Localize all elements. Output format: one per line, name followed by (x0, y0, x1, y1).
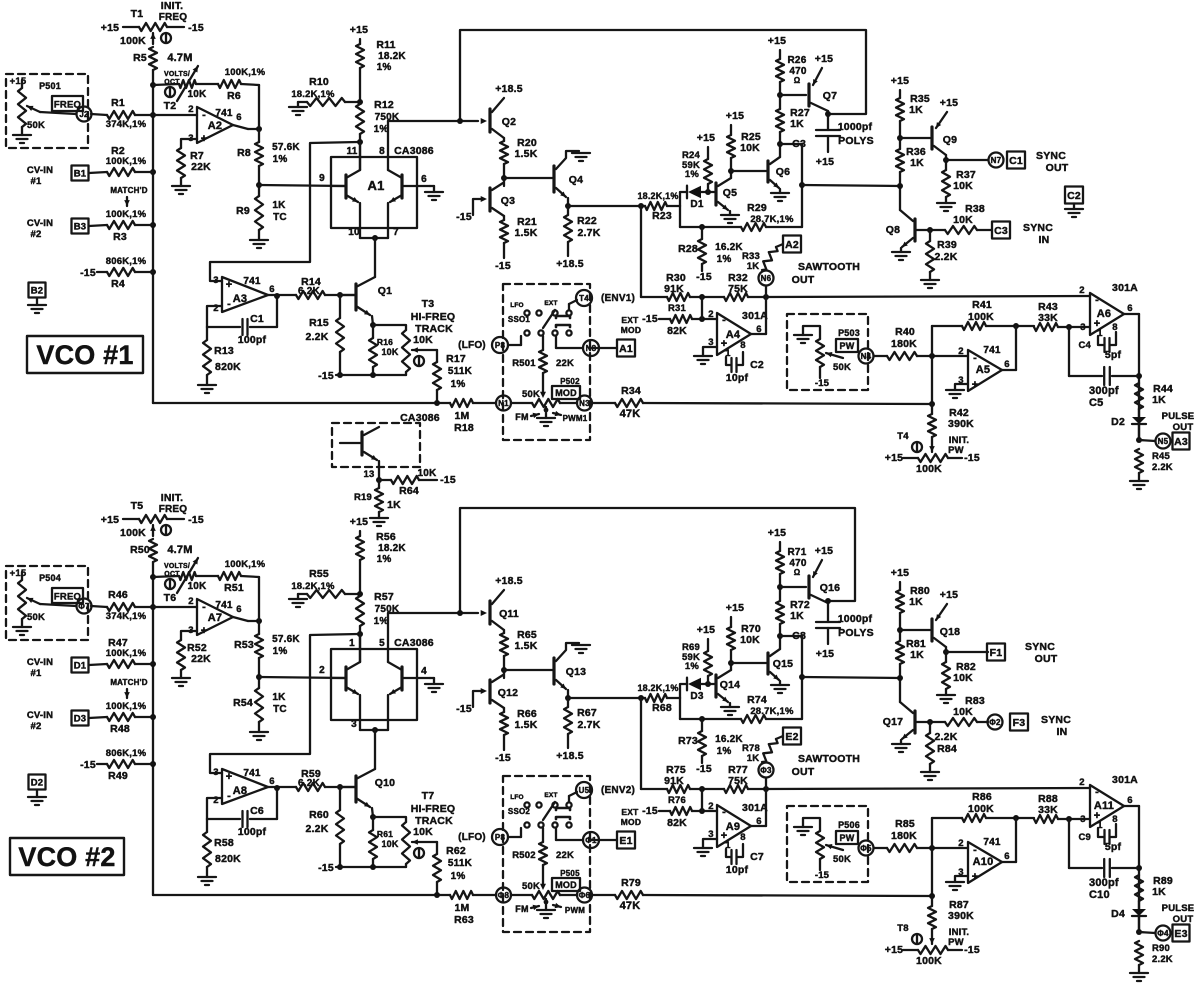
capacitor C9 5pf (1098, 828, 1104, 837)
svg-text:50K: 50K (27, 120, 45, 131)
node N3 (577, 396, 592, 411)
transistor Q17 (900, 702, 913, 713)
wire A6 output (1124, 313, 1139, 315)
svg-text:U5: U5 (579, 786, 590, 795)
svg-text:+15: +15 (940, 589, 958, 601)
svg-text:300pf: 300pf (1089, 385, 1119, 397)
svg-text:HI-FREQ: HI-FREQ (411, 803, 456, 815)
svg-text:Q1: Q1 (378, 285, 392, 297)
svg-text:+15: +15 (768, 35, 786, 47)
resistor R41 100K (932, 325, 962, 327)
svg-text:B3: B3 (74, 221, 87, 232)
svg-text:1K: 1K (747, 753, 760, 764)
svg-text:D3: D3 (74, 713, 87, 724)
resistor R57 750K 1% (359, 560, 361, 596)
pot P506 50K element (816, 831, 824, 859)
svg-text:50K: 50K (522, 881, 540, 892)
svg-text:LFO: LFO (510, 302, 524, 309)
svg-text:374K,1%: 374K,1% (106, 611, 147, 622)
op-amp A6 301A (1090, 293, 1124, 335)
resistor R7 22K (181, 139, 197, 148)
svg-text:T6: T6 (164, 592, 177, 604)
svg-text:301A: 301A (742, 802, 768, 814)
svg-text:1K: 1K (272, 200, 286, 211)
resistor R30 91K (641, 296, 667, 298)
svg-text:1%: 1% (377, 554, 392, 565)
svg-text:C8: C8 (792, 630, 806, 642)
svg-text:MATCH'D: MATCH'D (110, 678, 147, 687)
ground (921, 279, 939, 281)
op-amp A8 741 (222, 769, 268, 804)
svg-text:+15: +15 (816, 156, 834, 168)
svg-text:Q16: Q16 (820, 582, 840, 594)
sync out connector (946, 159, 988, 161)
svg-text:1%: 1% (451, 379, 466, 390)
svg-text:33K: 33K (1038, 312, 1058, 324)
sync out connector (946, 651, 988, 653)
svg-text:82K: 82K (667, 817, 687, 829)
transistor pair left (344, 667, 347, 690)
svg-text:-: - (1095, 294, 1099, 306)
svg-text:2: 2 (958, 838, 963, 849)
svg-text:R49: R49 (108, 770, 128, 782)
svg-text:57.6K: 57.6K (272, 142, 300, 153)
svg-text:4.7M: 4.7M (167, 52, 192, 64)
label VCO box (27, 336, 143, 373)
svg-text:R64: R64 (399, 485, 419, 497)
svg-text:+: + (201, 133, 208, 145)
svg-text:741: 741 (243, 768, 261, 779)
resistor R68 18.2K 1% (568, 697, 645, 699)
svg-text:R71: R71 (788, 547, 807, 558)
svg-text:EXT: EXT (544, 792, 557, 799)
op-amp A9 301A (717, 805, 751, 847)
svg-text:1%: 1% (374, 124, 389, 135)
svg-text:50K: 50K (27, 612, 45, 623)
ground (729, 703, 731, 707)
svg-text:1K: 1K (790, 118, 804, 130)
svg-text:741: 741 (983, 837, 1001, 848)
svg-text:D1: D1 (74, 660, 87, 671)
svg-text:R84: R84 (937, 743, 957, 755)
svg-text:1.5K: 1.5K (515, 640, 538, 652)
svg-text:Q17: Q17 (883, 716, 903, 728)
svg-text:D2: D2 (1111, 416, 1125, 428)
ground (28, 304, 46, 306)
resistor R42 390K (931, 404, 933, 414)
pot R502 22K (542, 828, 544, 842)
wire top rail (460, 30, 866, 121)
resistor R59 6.2K (296, 783, 325, 791)
svg-text:P505: P505 (560, 869, 580, 878)
svg-text:A7: A7 (208, 612, 222, 624)
svg-text:EXT: EXT (621, 807, 639, 817)
svg-text:100K,1%: 100K,1% (225, 67, 266, 78)
ground (900, 248, 902, 252)
svg-text:100K: 100K (916, 955, 942, 967)
svg-text:1.5K: 1.5K (515, 227, 538, 239)
svg-text:PWM: PWM (565, 906, 585, 915)
svg-text:R50: R50 (130, 544, 150, 556)
svg-text:T7: T7 (422, 790, 435, 802)
pot R501 22K (542, 336, 544, 350)
node Φ5 (859, 841, 874, 856)
wire PW node vertical (931, 818, 933, 896)
svg-text:EXT: EXT (544, 300, 557, 307)
svg-text:10K: 10K (740, 634, 760, 646)
resistor R15 2.2K (339, 295, 341, 318)
svg-text:R45: R45 (1152, 451, 1171, 462)
resistor R90 2.2K (1135, 941, 1143, 965)
diode D4 (1138, 901, 1140, 909)
svg-text:-15: -15 (456, 703, 472, 715)
svg-text:100K,1%: 100K,1% (225, 559, 266, 570)
svg-text:T3: T3 (422, 298, 435, 310)
svg-text:POLYS: POLYS (838, 135, 874, 147)
resistor R2 100K 1% (107, 168, 135, 176)
resistor R8 57.6K 1% (258, 129, 260, 142)
capacitor C8 1000pf POLYS (816, 621, 840, 623)
svg-text:82K: 82K (667, 325, 687, 337)
svg-text:TC: TC (273, 704, 287, 715)
capacitor C4 5pf (1098, 336, 1104, 345)
svg-text:POLYS: POLYS (838, 627, 874, 639)
svg-text:806K,1%: 806K,1% (106, 256, 147, 267)
svg-text:11: 11 (347, 146, 358, 157)
trim adjust symbol (165, 87, 175, 97)
resistor R63 1M (450, 891, 473, 899)
svg-text:10: 10 (348, 227, 360, 238)
svg-text:+15: +15 (816, 648, 834, 660)
svg-text:10K: 10K (953, 214, 973, 226)
svg-text:Φ4: Φ4 (1157, 929, 1169, 938)
node Φ6 (577, 888, 592, 903)
svg-text:2: 2 (319, 665, 325, 676)
wire R1 to op-amp input (135, 606, 197, 608)
node T4 circle (576, 290, 592, 306)
svg-text:FM: FM (515, 904, 528, 914)
svg-text:#1: #1 (31, 176, 42, 187)
op-amp A4 301A (717, 313, 751, 355)
resistor R55 18.2K 1% (307, 590, 345, 598)
transistor pair right (400, 175, 403, 198)
svg-text:1%: 1% (685, 169, 699, 180)
svg-text:390K: 390K (948, 418, 974, 430)
svg-text:LFO: LFO (510, 794, 524, 801)
svg-text:100K: 100K (916, 463, 942, 475)
svg-text:T2: T2 (164, 100, 177, 112)
svg-text:3: 3 (213, 275, 218, 286)
svg-text:+15: +15 (891, 75, 909, 87)
resistor R9 1K TC (255, 196, 263, 230)
svg-text:2.7K: 2.7K (578, 719, 601, 731)
svg-text:C2: C2 (1067, 190, 1081, 202)
svg-text:1K: 1K (790, 610, 804, 622)
transistor Q14 (714, 675, 717, 697)
node bus junctions (150, 574, 156, 580)
svg-text:INIT.: INIT. (161, 0, 184, 12)
ground (172, 677, 190, 679)
wire to sawtooth reset (640, 206, 642, 297)
svg-text:1M: 1M (455, 410, 470, 422)
svg-text:18.2K,1%: 18.2K,1% (637, 683, 678, 693)
resistor R34 47K (591, 402, 615, 404)
svg-text:R1: R1 (111, 97, 125, 109)
svg-text:E1: E1 (619, 835, 632, 847)
svg-text:374K,1%: 374K,1% (106, 119, 147, 130)
svg-text:R54: R54 (233, 697, 253, 709)
svg-text:10K: 10K (188, 89, 208, 100)
svg-text:Q2: Q2 (502, 116, 516, 128)
svg-text:18.2K: 18.2K (378, 51, 406, 62)
wire emitters common (360, 237, 388, 239)
svg-text:10K: 10K (953, 706, 973, 718)
svg-text:-: - (227, 298, 231, 310)
svg-text:E3: E3 (1174, 928, 1187, 940)
sync in connector (977, 229, 992, 231)
svg-text:PW: PW (948, 445, 964, 456)
ground (955, 876, 968, 882)
label VCO box (10, 838, 124, 875)
svg-text:1%: 1% (685, 661, 699, 672)
resistor R47 100K 1% (107, 660, 135, 668)
svg-text:+15: +15 (350, 24, 368, 36)
wire summing bus vertical (152, 85, 154, 403)
svg-text:-15: -15 (456, 211, 472, 223)
svg-text:1000pf: 1000pf (838, 121, 873, 133)
svg-text:R51: R51 (224, 582, 244, 594)
svg-text:(LFO): (LFO) (458, 340, 486, 351)
svg-text:R86: R86 (972, 791, 992, 803)
svg-text:2.2K: 2.2K (1152, 954, 1173, 965)
svg-text:1.5K: 1.5K (515, 148, 538, 160)
wire FM summing bus (153, 894, 450, 896)
svg-text:CA3086: CA3086 (400, 412, 440, 424)
capacitor C6 100pf (207, 818, 240, 820)
svg-text:+15: +15 (697, 624, 715, 636)
resistor R60 2.2K (339, 787, 341, 810)
wire pin 9 line (259, 677, 346, 678)
transistor Q16 PNP (780, 586, 806, 588)
svg-text:180K: 180K (891, 830, 917, 842)
svg-text:C1: C1 (1009, 155, 1023, 167)
svg-text:R79: R79 (621, 877, 641, 889)
svg-text:511K: 511K (448, 366, 473, 377)
wire op-amp output (233, 617, 248, 621)
svg-text:-15: -15 (642, 805, 658, 817)
svg-text:CV-IN: CV-IN (27, 218, 53, 229)
connector EXT MOD E1 (590, 839, 617, 841)
svg-text:100K: 100K (968, 311, 994, 323)
ground (1130, 480, 1148, 482)
node bus junctions (150, 82, 156, 88)
svg-text:R13: R13 (214, 345, 234, 357)
trim adjust symbol (161, 33, 171, 43)
wire PW node vertical (931, 326, 933, 404)
svg-text:-15: -15 (964, 944, 980, 956)
pot P504 FREQ dashed enclosure (6, 566, 88, 640)
svg-text:1K: 1K (387, 499, 401, 511)
svg-text:-: - (973, 352, 977, 364)
ground (21, 127, 23, 135)
svg-text:1%: 1% (377, 62, 392, 73)
svg-text:Q14: Q14 (720, 679, 740, 691)
svg-text:C1: C1 (250, 313, 264, 325)
resistor R65 1.5K (500, 633, 508, 656)
resistor R66 1.5K (503, 708, 505, 712)
resistor R43 33K (1034, 323, 1058, 331)
svg-text:R67: R67 (577, 707, 597, 719)
svg-text:1: 1 (349, 638, 355, 649)
svg-text:100K: 100K (120, 35, 146, 47)
svg-text:100K,1%: 100K,1% (106, 156, 147, 167)
resistor R28 16.2K 1% (701, 227, 703, 239)
resistor R72 1K (776, 601, 784, 624)
svg-text:VOLTS/: VOLTS/ (164, 563, 190, 570)
svg-text:-: - (973, 844, 977, 856)
svg-text:R4: R4 (111, 278, 125, 290)
pot P504 50K element (21, 572, 23, 580)
svg-text:E2: E2 (785, 731, 798, 743)
resistor R83 10K (945, 718, 977, 726)
resistor R13 820K (206, 327, 208, 340)
trim adjust symbol (161, 525, 171, 535)
svg-text:-15: -15 (696, 271, 712, 283)
svg-text:Q7: Q7 (823, 90, 837, 102)
svg-text:16.2K: 16.2K (715, 242, 743, 253)
svg-text:A3: A3 (1174, 436, 1188, 448)
svg-text:820K: 820K (215, 361, 241, 373)
ground (937, 202, 955, 204)
ground (921, 771, 939, 773)
svg-text:A3: A3 (233, 293, 247, 305)
svg-text:R19: R19 (354, 492, 372, 503)
svg-text:+: + (972, 871, 979, 883)
svg-text:511K: 511K (448, 858, 473, 869)
wire A4 output (751, 333, 766, 335)
transistor Q11 (388, 612, 478, 614)
svg-text:-15: -15 (696, 763, 712, 775)
svg-text:P503: P503 (838, 328, 860, 338)
resistor R27 1K (776, 109, 784, 132)
svg-text:D1: D1 (690, 199, 703, 210)
svg-text:FREQ: FREQ (159, 504, 188, 515)
svg-text:741: 741 (983, 345, 1001, 356)
svg-text:SYNC: SYNC (1041, 714, 1071, 726)
svg-text:SYNC: SYNC (1025, 641, 1055, 653)
wire sawtooth to A6 (766, 296, 1090, 297)
ground (1065, 208, 1083, 210)
op-amp A5 741 (968, 350, 1002, 391)
svg-text:47K: 47K (620, 900, 641, 912)
connector EXT MOD A1 (590, 347, 617, 349)
svg-text:R12: R12 (374, 99, 394, 111)
wire bus to pulse width stage (643, 895, 932, 896)
pot P506 PW dashed enclosure (787, 806, 868, 882)
resistor R22 2.7K (567, 206, 569, 215)
svg-text:R85: R85 (895, 818, 915, 830)
svg-text:100K,1%: 100K,1% (106, 209, 147, 220)
svg-text:1K: 1K (1152, 886, 1166, 898)
svg-text:PULSE: PULSE (1162, 903, 1195, 914)
svg-text:P8: P8 (495, 341, 506, 350)
ground (430, 185, 434, 187)
svg-text:+15: +15 (891, 567, 909, 579)
svg-text:C2: C2 (750, 359, 764, 371)
svg-text:806K,1%: 806K,1% (106, 748, 147, 759)
svg-text:OUT: OUT (792, 766, 815, 778)
svg-text:6.2K: 6.2K (298, 286, 321, 297)
resistor R77 75K (724, 785, 748, 793)
pot wiper to ground (544, 408, 549, 413)
resistor R23 18.2K 1% (568, 205, 645, 207)
svg-text:INIT.: INIT. (161, 492, 184, 504)
resistor R84 2.2K (929, 722, 931, 733)
transistor Q10 (354, 776, 357, 802)
wire Q6 collector rail (801, 636, 803, 719)
ground (370, 517, 388, 519)
svg-text:(LFO): (LFO) (458, 832, 486, 843)
ground (28, 796, 46, 798)
resistor R5 4.7M (149, 47, 157, 70)
svg-text:C7: C7 (750, 851, 764, 863)
svg-text:N7: N7 (991, 156, 1002, 165)
svg-text:CV-IN: CV-IN (27, 710, 53, 721)
transistor Q6 (766, 161, 769, 182)
ground (729, 211, 731, 215)
svg-text:IN: IN (1039, 234, 1050, 246)
svg-text:R41: R41 (972, 299, 992, 311)
transistor Q8 (900, 210, 913, 221)
wire inverting input (207, 306, 222, 327)
svg-text:R90: R90 (1152, 943, 1170, 954)
transistor array A1 CA3086 box (331, 157, 417, 228)
svg-text:MATCH'D: MATCH'D (110, 186, 147, 195)
svg-text:+15: +15 (940, 97, 958, 109)
svg-text:Q12: Q12 (498, 687, 518, 699)
svg-text:2: 2 (213, 795, 218, 806)
svg-text:Q10: Q10 (375, 777, 395, 789)
transistor array bias CA3086 dashed box (332, 423, 420, 467)
svg-text:C4: C4 (1078, 340, 1091, 351)
svg-text:P504: P504 (39, 573, 61, 583)
transistor Q12 (492, 675, 503, 682)
svg-text:R68: R68 (652, 702, 672, 714)
svg-text:R11: R11 (376, 39, 395, 51)
svg-text:+15: +15 (815, 53, 833, 65)
svg-text:OCT: OCT (164, 571, 180, 578)
svg-text:R29: R29 (747, 202, 767, 214)
svg-text:1%: 1% (717, 746, 732, 757)
svg-text:P8: P8 (495, 833, 506, 842)
svg-text:Φ2: Φ2 (989, 718, 1001, 727)
node Φ8 (496, 888, 511, 903)
svg-text:A4: A4 (726, 329, 741, 341)
resistor R21 1.5K (503, 216, 505, 220)
svg-text:R31: R31 (668, 303, 687, 314)
transistor Q18 PNP (900, 629, 930, 631)
svg-text:R18: R18 (454, 422, 474, 434)
svg-text:+: + (972, 379, 979, 391)
svg-text:8: 8 (740, 340, 745, 351)
svg-text:180K: 180K (891, 338, 917, 350)
svg-text:Q4: Q4 (569, 174, 583, 186)
svg-text:300pf: 300pf (1089, 877, 1119, 889)
svg-text:8: 8 (740, 832, 745, 843)
svg-text:100K: 100K (968, 803, 994, 815)
svg-text:R63: R63 (454, 914, 474, 926)
wire summing bus vertical (152, 577, 154, 895)
